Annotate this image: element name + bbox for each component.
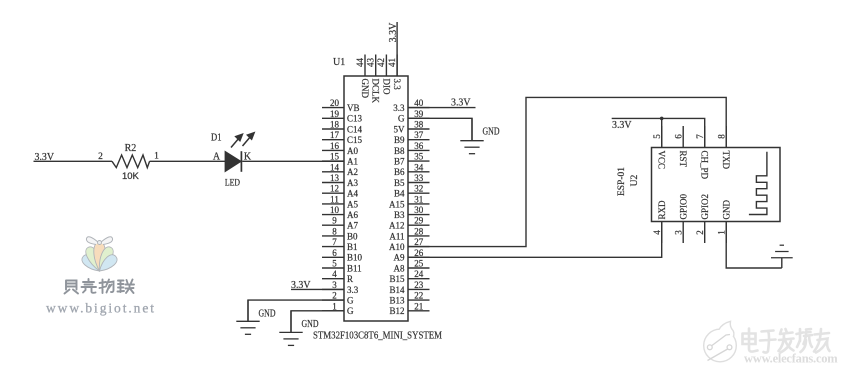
- svg-text:44: 44: [355, 58, 365, 68]
- svg-text:3.3V: 3.3V: [388, 22, 399, 43]
- U1 pin 8 (B0) left: [322, 226, 358, 241]
- U1 pin 13 (A3) left: [322, 173, 358, 188]
- svg-text:STM32F103C8T6_MINI_SYSTEM: STM32F103C8T6_MINI_SYSTEM: [313, 331, 443, 342]
- svg-text:27: 27: [414, 237, 424, 247]
- svg-text:10K: 10K: [122, 171, 140, 182]
- svg-text:A4: A4: [347, 189, 358, 199]
- U1 pin 42 (DIO) top: [376, 55, 391, 95]
- svg-text:19: 19: [330, 109, 340, 119]
- U1 pin 44 (GND) top: [355, 55, 370, 99]
- LED D1 light arrow 2: [243, 132, 256, 147]
- U1 pin 22 (B13) right: [389, 291, 429, 306]
- U1 pin 23 (B14) right: [389, 280, 429, 295]
- svg-text:2: 2: [98, 152, 103, 162]
- U1 pin 41 (3.3) top: [387, 55, 402, 91]
- svg-text:GND: GND: [721, 200, 731, 220]
- U1 pin 1 (G) left: [322, 301, 354, 316]
- LED D1 light arrow 1: [231, 133, 244, 148]
- U1 pin 11 (A5) left: [322, 194, 358, 209]
- svg-text:U1: U1: [333, 57, 345, 68]
- svg-text:34: 34: [414, 162, 424, 172]
- svg-text:G: G: [398, 114, 405, 124]
- svg-text:37: 37: [414, 130, 424, 140]
- U1 pin 3 (3.3) left: [322, 280, 359, 295]
- U1 pin 25 (A8) right: [394, 259, 430, 274]
- svg-text:14: 14: [330, 162, 340, 172]
- svg-text:B13: B13: [389, 296, 405, 306]
- U1 pin 7 (B1) left: [322, 237, 358, 252]
- svg-text:A7: A7: [347, 221, 358, 231]
- svg-text:B6: B6: [394, 167, 405, 177]
- svg-text:C14: C14: [347, 124, 363, 134]
- svg-text:26: 26: [414, 248, 424, 258]
- U1 pin 29 (A12) right: [389, 216, 430, 231]
- svg-text:TXD: TXD: [721, 151, 731, 170]
- svg-text:R2: R2: [125, 143, 137, 154]
- svg-text:R: R: [347, 274, 353, 284]
- svg-text:A1: A1: [347, 157, 358, 167]
- resistor R2 zigzag: [112, 155, 150, 168]
- svg-text:16: 16: [330, 141, 340, 151]
- wire 3.3V net to U1 pin 3: [291, 288, 344, 290]
- svg-text:GPIO2: GPIO2: [700, 194, 710, 220]
- svg-text:8: 8: [332, 226, 337, 236]
- svg-text:3.3: 3.3: [393, 103, 405, 113]
- svg-text:A5: A5: [347, 199, 358, 209]
- svg-text:GND: GND: [483, 127, 500, 138]
- module U2 ESP-01 body box: [652, 148, 781, 222]
- U1 pin 30 (B3) right: [394, 205, 430, 220]
- U1 pin 5 (B11) left: [322, 259, 362, 274]
- U1 pin 21 (B12) right: [389, 301, 429, 316]
- wire R2 to LED D1: [150, 160, 225, 162]
- svg-text:35: 35: [414, 152, 424, 162]
- svg-text:C13: C13: [347, 114, 363, 124]
- svg-text:8: 8: [716, 134, 726, 139]
- svg-text:40: 40: [414, 98, 424, 108]
- U2 pin 2 (GPIO2) bottom: [695, 194, 710, 243]
- antenna meander (ESP-01 PCB antenna): [749, 152, 767, 215]
- wire U1 pin 40 to 3.3V net: [408, 107, 476, 109]
- svg-text:21: 21: [414, 301, 423, 311]
- IC U1 STM32 body box: [344, 76, 408, 321]
- U1 pin 28 (A11) right: [389, 226, 429, 241]
- svg-text:3: 3: [332, 280, 337, 290]
- U1 pin 2 (G) left: [322, 291, 354, 306]
- LED D1 triangle (diode): [225, 151, 241, 172]
- svg-text:24: 24: [414, 269, 424, 279]
- svg-text:22: 22: [414, 291, 423, 301]
- svg-text:RXD: RXD: [657, 200, 667, 220]
- svg-text:6: 6: [332, 248, 337, 258]
- svg-text:B1: B1: [347, 242, 358, 252]
- svg-text:www.bigiot.net: www.bigiot.net: [46, 301, 155, 316]
- U1 pin 9 (A7) left: [322, 216, 358, 231]
- svg-text:G: G: [347, 296, 354, 306]
- wire 3.3V net to resistor R2: [34, 160, 113, 162]
- wire U2 VCC stub to 3.3V rail: [661, 118, 663, 147]
- U1 pin 10 (A6) left: [322, 205, 358, 220]
- svg-text:17: 17: [330, 130, 340, 140]
- svg-text:1: 1: [332, 301, 337, 311]
- U1 pin 40 (3.3) right: [393, 98, 429, 113]
- ground for U1 pin 1: [279, 311, 302, 346]
- svg-text:A9: A9: [394, 253, 405, 263]
- U2 pin 8 (TXD) top: [716, 126, 731, 169]
- U2 pin 5 (VCC) top: [652, 126, 667, 169]
- svg-text:7: 7: [695, 134, 705, 139]
- U1 pin 33 (B5) right: [394, 173, 430, 188]
- wire U2 GND pin 1 to earth ground: [726, 222, 782, 269]
- U1 pin 38 (5V) right: [394, 120, 430, 135]
- svg-text:LED: LED: [225, 178, 240, 188]
- svg-text:CH_PD: CH_PD: [700, 151, 710, 180]
- wire 3.3V rail to U2 VCC and CH_PD: [612, 118, 705, 147]
- svg-text:B14: B14: [389, 285, 405, 295]
- svg-text:B12: B12: [389, 306, 404, 316]
- U1 pin 32 (B4) right: [394, 184, 430, 199]
- U1 pin 26 (A9) right: [394, 248, 430, 263]
- svg-text:B3: B3: [394, 210, 405, 220]
- U1 pin 17 (C15) left: [322, 130, 363, 145]
- U1 pin 19 (C13) left: [322, 109, 363, 124]
- wire U1 pin 39 (G) to ground: [408, 118, 472, 140]
- svg-text:41: 41: [387, 58, 397, 67]
- svg-text:36: 36: [414, 141, 424, 151]
- U2 pin 1 (GND) bottom: [716, 200, 731, 243]
- U1 pin 6 (B10) left: [322, 248, 363, 263]
- U1 pin 14 (A2) left: [322, 162, 358, 177]
- svg-text:B11: B11: [347, 263, 362, 273]
- U2 pin 6 (RST) top: [673, 126, 688, 168]
- svg-text:3.3V: 3.3V: [451, 97, 471, 108]
- svg-text:A15: A15: [389, 199, 405, 209]
- svg-text:33: 33: [414, 173, 424, 183]
- svg-text:B4: B4: [394, 189, 405, 199]
- U1 pin 35 (B7) right: [394, 152, 430, 167]
- U2 pin 3 (GPIO0) bottom: [673, 193, 688, 243]
- svg-text:B10: B10: [347, 253, 363, 263]
- svg-text:42: 42: [376, 58, 386, 67]
- U1 pin 43 (DCLK) top: [366, 55, 381, 104]
- svg-text:28: 28: [414, 226, 424, 236]
- U2 pin 4 (RXD) bottom: [652, 200, 667, 243]
- svg-text:9: 9: [332, 216, 337, 226]
- svg-text:13: 13: [330, 173, 340, 183]
- svg-text:A11: A11: [389, 231, 404, 241]
- wire 3.3V to U1 pin 41 (vertical): [396, 22, 398, 76]
- wire U1 pin 2 (G) to ground: [248, 300, 344, 321]
- svg-text:B0: B0: [347, 231, 358, 241]
- svg-text:VB: VB: [347, 103, 360, 113]
- svg-text:D1: D1: [211, 132, 222, 143]
- svg-text:GND: GND: [302, 319, 319, 330]
- U1 pin 39 (G) right: [398, 109, 430, 124]
- svg-text:A10: A10: [389, 242, 405, 252]
- svg-text:C15: C15: [347, 135, 363, 145]
- svg-text:32: 32: [414, 184, 423, 194]
- svg-text:5V: 5V: [394, 124, 406, 134]
- svg-text:15: 15: [330, 152, 340, 162]
- watermark bigiot shell logo: [80, 237, 120, 275]
- svg-text:VCC: VCC: [657, 151, 667, 170]
- svg-text:B8: B8: [394, 146, 405, 156]
- svg-text:3.3V: 3.3V: [612, 120, 632, 131]
- wire U1 pin 27 (A10) to ESP-01 TXD pin 8: [408, 97, 726, 246]
- svg-text:G: G: [347, 306, 354, 316]
- svg-text:4: 4: [652, 230, 662, 235]
- svg-text:B15: B15: [389, 274, 405, 284]
- svg-text:3.3: 3.3: [392, 79, 402, 91]
- svg-text:4: 4: [332, 269, 337, 279]
- U1 pin 24 (B15) right: [389, 269, 429, 284]
- svg-text:A6: A6: [347, 210, 358, 220]
- wire U1 pin 1 (G) to ground: [291, 311, 344, 332]
- svg-text:A12: A12: [389, 221, 405, 231]
- svg-text:29: 29: [414, 216, 424, 226]
- svg-text:DIO: DIO: [381, 79, 391, 95]
- svg-text:U2: U2: [630, 174, 640, 186]
- svg-text:6: 6: [673, 134, 683, 139]
- svg-text:DCLK: DCLK: [371, 79, 381, 104]
- wire LED cathode to U1 pin 15 (A1): [242, 160, 344, 162]
- junction dot at VCC / 3.3V rail: [660, 117, 664, 121]
- svg-text:GND: GND: [259, 309, 276, 320]
- svg-text:38: 38: [414, 120, 424, 130]
- svg-text:11: 11: [330, 194, 339, 204]
- svg-text:12: 12: [330, 184, 339, 194]
- U2 pin 7 (CH_PD) top: [695, 126, 710, 180]
- svg-text:B9: B9: [394, 135, 405, 145]
- U1 pin 34 (B6) right: [394, 162, 430, 177]
- watermark elecfans circle logo: [704, 321, 737, 362]
- svg-text:23: 23: [414, 280, 424, 290]
- svg-text:20: 20: [330, 98, 340, 108]
- svg-text:43: 43: [366, 58, 376, 68]
- svg-text:10: 10: [330, 205, 340, 215]
- svg-text:ESP-01: ESP-01: [617, 167, 627, 196]
- svg-text:A3: A3: [347, 178, 358, 188]
- U1 pin 36 (B8) right: [394, 141, 430, 156]
- svg-text:31: 31: [414, 194, 423, 204]
- svg-text:B7: B7: [394, 157, 405, 167]
- svg-text:GND: GND: [360, 79, 370, 99]
- U1 pin 37 (B9) right: [394, 130, 430, 145]
- ground for U1 pin 39: [460, 118, 483, 153]
- U1 pin 18 (C14) left: [322, 120, 363, 135]
- svg-text:30: 30: [414, 205, 424, 215]
- svg-text:3: 3: [673, 230, 683, 235]
- U1 pin 12 (A4) left: [322, 184, 358, 199]
- svg-text:A: A: [213, 152, 221, 163]
- U1 pin 16 (A0) left: [322, 141, 358, 156]
- svg-text:GPIO0: GPIO0: [678, 193, 688, 219]
- watermark text 电子发烧友 (drawn faint strokes): [743, 329, 830, 353]
- U1 pin 15 (A1) left: [322, 152, 358, 167]
- U1 pin 4 (R) left: [322, 269, 353, 284]
- svg-text:5: 5: [652, 134, 662, 139]
- watermark text 贝壳物联 (drawn strokes): [65, 279, 135, 294]
- U1 pin 20 (VB) left: [322, 98, 360, 113]
- svg-text:39: 39: [414, 109, 424, 119]
- U1 pin 31 (A15) right: [389, 194, 430, 209]
- wire U1 pin 26 (A9) to ESP-01 RXD pin 4: [408, 222, 662, 258]
- LED D1 cathode bar: [240, 151, 242, 172]
- svg-text:RST: RST: [678, 151, 688, 168]
- U1 pin 27 (A10) right: [389, 237, 430, 252]
- svg-text:A2: A2: [347, 167, 358, 177]
- svg-text:A0: A0: [347, 146, 358, 156]
- svg-text:7: 7: [332, 237, 337, 247]
- svg-text:18: 18: [330, 120, 340, 130]
- svg-text:www.elecfans.com: www.elecfans.com: [744, 352, 838, 366]
- svg-text:2: 2: [695, 230, 705, 235]
- ground (inverted) for U2 GND: [771, 245, 793, 268]
- svg-text:B5: B5: [394, 178, 405, 188]
- svg-text:A8: A8: [394, 263, 405, 273]
- svg-text:5: 5: [332, 259, 337, 269]
- ground for U1 pin 2: [236, 300, 259, 334]
- svg-text:3.3: 3.3: [347, 285, 359, 295]
- svg-text:2: 2: [332, 291, 337, 301]
- svg-text:1: 1: [716, 230, 726, 235]
- svg-text:1: 1: [154, 152, 159, 162]
- svg-text:25: 25: [414, 259, 424, 269]
